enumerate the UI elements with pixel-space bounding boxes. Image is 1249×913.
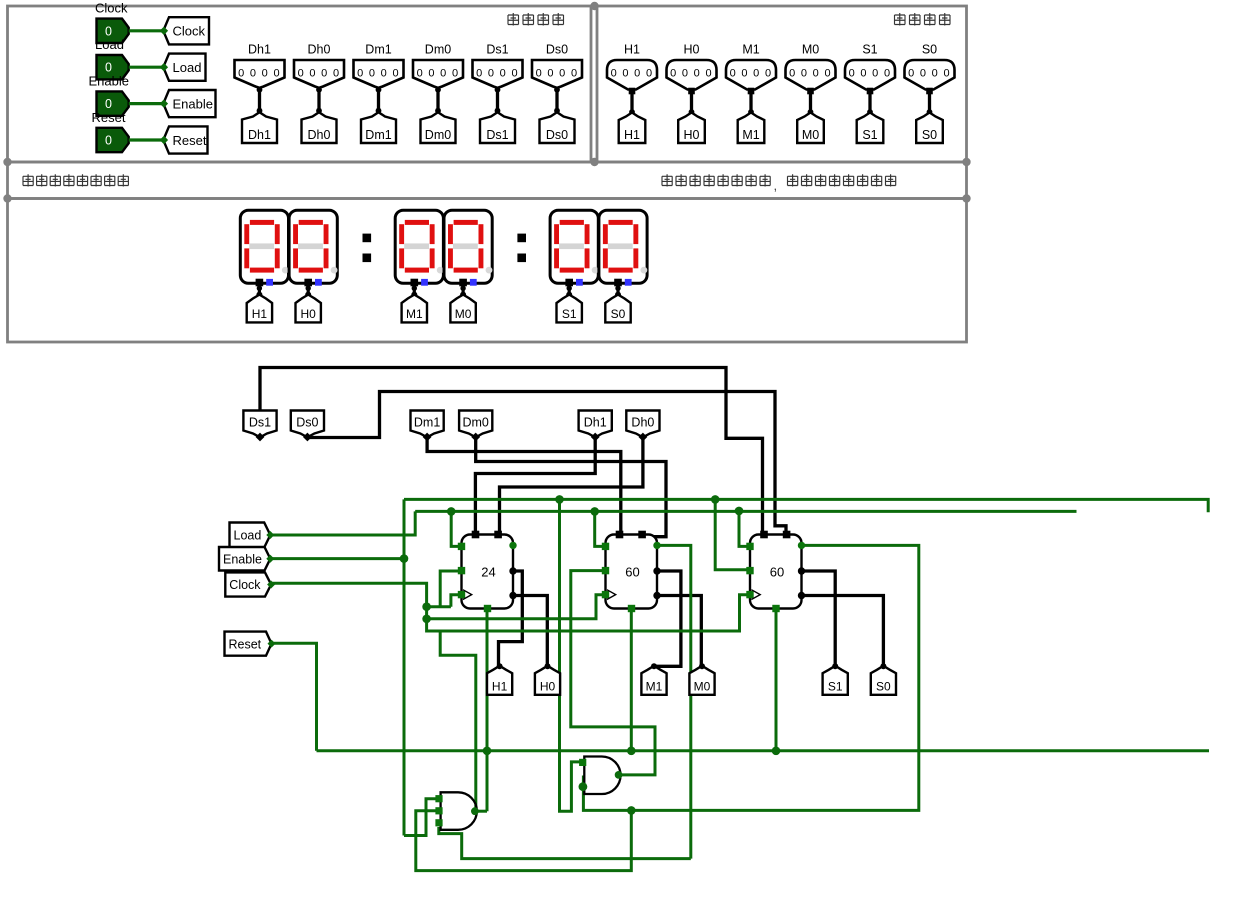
svg-text:Dh0: Dh0	[308, 43, 331, 57]
counter 60 bottom pin	[628, 605, 635, 612]
svg-text:0 0 0 0: 0 0 0 0	[238, 68, 281, 80]
svg-text:Dh1: Dh1	[248, 43, 271, 57]
wire Ds1 pin to tunnel	[496, 88, 499, 112]
seven-segment display H1	[240, 210, 288, 283]
bus wire hours counter Q1 to tunnel H1	[499, 571, 523, 665]
wire reset bus to counter 60s reset pin	[775, 609, 778, 751]
wire end diamond Clock	[160, 27, 168, 35]
svg-text:Dm1: Dm1	[414, 416, 440, 430]
input pin Clock (value 0)	[97, 19, 129, 43]
probe pin square M1	[748, 88, 755, 95]
svg-text:Ds0: Ds0	[296, 416, 318, 430]
wire Reset pin to tunnel	[129, 138, 164, 141]
counter 60 body	[606, 535, 658, 609]
clock stub to counter 24	[427, 605, 451, 608]
wire Load pin to tunnel	[129, 66, 164, 69]
wire display pin to tunnel S1	[568, 286, 571, 295]
bus wire Ds0 to seconds counter load	[307, 392, 786, 534]
counter 24 clock wedge	[463, 590, 472, 600]
wire reset bus to counter 60m reset pin	[630, 609, 633, 751]
wire Enable pin to tunnel	[129, 102, 164, 105]
svg-text:H0: H0	[684, 128, 700, 142]
node load/counter24	[447, 507, 456, 516]
bus wire hours counter Q0 to tunnel H0	[513, 596, 547, 666]
counter 60 output pins	[653, 567, 660, 574]
wire Clock pin to tunnel	[129, 29, 164, 32]
display M0 input pin	[459, 279, 467, 287]
svg-text:Clock: Clock	[173, 24, 206, 39]
svg-text:Dh0: Dh0	[631, 416, 654, 430]
wire counter 60s carry to AND gate G2 input B	[583, 545, 918, 810]
seven-segment display S1	[550, 210, 598, 283]
tunnel Ds1 (south)	[243, 411, 276, 438]
frame: display section border	[8, 199, 967, 343]
wire display pin to tunnel M1	[413, 286, 416, 295]
tunnel Clock (east)	[225, 572, 271, 596]
svg-text:Load: Load	[234, 529, 262, 543]
counter 60 clock wedge	[751, 590, 760, 600]
wire diamond Enable	[266, 555, 274, 563]
wire G1 output to counter 24 reset pin	[475, 810, 487, 813]
tunnel Load	[163, 54, 205, 81]
svg-text:S0: S0	[922, 43, 937, 57]
seven-segment display M1	[395, 210, 443, 283]
counter 24 carry out pin	[509, 542, 516, 549]
wire clock line down to G1 output feed	[440, 631, 476, 811]
svg-text:Ds0: Ds0	[546, 128, 568, 142]
seven-segment display H0	[289, 210, 337, 283]
wire load bus to counter 24 load pin	[451, 511, 460, 546]
display S1 dp pin (blue)	[576, 279, 583, 286]
AND gate G2 input stubs	[579, 759, 586, 766]
input pin Dm1 (4-bit)	[354, 60, 404, 88]
tunnel Dm0 (south)	[459, 411, 492, 438]
wire Dh0 pin to tunnel	[317, 88, 320, 112]
output probe H0 (4-bit)	[667, 60, 717, 90]
wire G2 output to counter 60m enable pin	[571, 571, 655, 775]
wire clock stub to counter 24 enable pin	[440, 571, 460, 607]
label 二十四小时计数器	[23, 174, 33, 186]
tunnel Dm0 (north)	[421, 112, 456, 143]
bus wire seconds counter Q0 to tunnel S0	[802, 596, 884, 666]
tunnel M1 (north)	[402, 295, 427, 323]
svg-text:Dm0: Dm0	[462, 416, 488, 430]
tunnel Enable (east)	[219, 547, 270, 571]
probe pin square H0	[688, 88, 695, 95]
wire Load tunnel to load bus	[270, 511, 415, 535]
input pin Enable (value 0)	[97, 91, 129, 115]
bus wire seconds counter Q1 to tunnel S1	[802, 571, 836, 665]
svg-text:S0: S0	[922, 128, 937, 142]
svg-text:S1: S1	[828, 679, 843, 693]
svg-text:H1: H1	[624, 43, 640, 57]
svg-text:0 0 0 0: 0 0 0 0	[789, 68, 832, 80]
bus wire minutes counter Q0 to tunnel M0	[657, 596, 701, 666]
seven-segment display M0	[444, 210, 492, 283]
enable riser vertical	[403, 499, 406, 835]
svg-text:H1: H1	[492, 679, 508, 693]
tunnel Clock	[163, 17, 209, 44]
svg-text:0 0 0 0: 0 0 0 0	[476, 68, 519, 80]
svg-text:Clock: Clock	[229, 578, 261, 592]
tunnel Ds0 (north)	[540, 112, 575, 143]
svg-text:Load: Load	[95, 37, 124, 52]
wire diamond Reset	[268, 640, 276, 648]
svg-text:M0: M0	[694, 679, 711, 693]
svg-text:S0: S0	[876, 679, 891, 693]
counter 60 top pins (load data)	[760, 531, 768, 539]
AND gate G2 input junction dot	[579, 782, 588, 791]
svg-text:Clock: Clock	[95, 1, 128, 16]
input pin Dh0 (4-bit)	[294, 60, 344, 88]
bus wire minutes counter Q1 to tunnel M1	[655, 571, 681, 666]
label 请勿更改封装外观，否则无法完成测试	[662, 174, 672, 186]
probe pin square S1	[867, 88, 874, 95]
svg-text:Dm1: Dm1	[365, 43, 391, 57]
wire M0 probe to tunnel	[809, 94, 812, 113]
svg-text:Dm0: Dm0	[425, 128, 451, 142]
enable bus horizontal	[404, 499, 1208, 512]
display H0 input pin	[304, 279, 312, 287]
wire H1 probe to tunnel	[630, 94, 633, 113]
node enable riser	[400, 554, 409, 563]
output probe M1 (4-bit)	[726, 60, 776, 90]
svg-text:60: 60	[625, 565, 639, 580]
label 输入引脚	[508, 13, 519, 26]
wire Dm1 pin to tunnel	[377, 88, 380, 112]
node reset/counter60s	[772, 747, 781, 756]
output probe S0 (4-bit)	[905, 60, 955, 90]
svg-text:H0: H0	[684, 43, 700, 57]
tunnel M1 (north)	[641, 666, 666, 695]
tunnel M0 (north)	[450, 295, 475, 323]
frame: top-left section border	[8, 6, 592, 162]
colon 2	[517, 234, 526, 243]
tunnel Dm1 (south)	[411, 411, 444, 438]
input pin Ds1 (4-bit)	[473, 60, 523, 88]
svg-text:Ds1: Ds1	[249, 416, 271, 430]
node reset/counter24	[483, 747, 492, 756]
svg-text:Enable: Enable	[223, 552, 262, 566]
wire display pin to tunnel H0	[307, 286, 310, 295]
tunnel S0 (north)	[605, 295, 630, 323]
AND gate G1 output dot	[471, 807, 479, 815]
counter 60 body	[750, 535, 802, 609]
wire G2 input line to AND gate G1 input B	[416, 810, 632, 870]
svg-text:0: 0	[105, 134, 112, 148]
wire Clock tunnel to clock net	[271, 583, 748, 631]
counter 60 left pins	[602, 543, 609, 550]
bus wire Dm1 to minutes counter load	[427, 435, 621, 533]
counter 60 bottom pin	[772, 605, 779, 612]
wire clock stub to counter 24 clock pin	[451, 595, 460, 607]
display S0 input pin	[614, 279, 622, 287]
svg-text:H1: H1	[252, 307, 268, 321]
counter 60 clock wedge	[607, 590, 616, 600]
AND gate G2	[584, 757, 620, 795]
display M1 dp pin (blue)	[421, 279, 428, 286]
node carry60s/G1	[627, 806, 636, 815]
wire Dm0 pin to tunnel	[436, 88, 439, 112]
tunnel M0 (north)	[797, 113, 824, 144]
bus wire Dh0 to hours counter load	[500, 435, 643, 533]
wire display pin to tunnel H1	[258, 286, 261, 295]
wire display pin to tunnel M0	[462, 286, 465, 295]
tunnel H1 (north)	[619, 113, 646, 144]
svg-text:0 0 0 0: 0 0 0 0	[298, 68, 341, 80]
wire enable to AND gate G1 input A	[404, 799, 436, 836]
tunnel Reset (east)	[225, 632, 272, 656]
wire Enable tunnel to enable bus	[270, 557, 404, 560]
AND gate G2 output dot	[615, 771, 623, 779]
tunnel Load (east)	[230, 523, 271, 548]
counter 60 top pins (load data)	[616, 531, 624, 539]
frame anchor dots	[590, 2, 598, 10]
wire Ds0 pin to tunnel	[555, 88, 558, 112]
tunnel M1 (north)	[738, 113, 765, 144]
tunnel H0 (north)	[296, 295, 321, 323]
tunnel Reset	[163, 126, 207, 153]
probe pin square S0	[926, 88, 933, 95]
svg-text:0 0 0 0: 0 0 0 0	[730, 68, 773, 80]
tunnel S0 (north)	[916, 113, 943, 144]
wire enable bus to counter 60s enable pin	[715, 499, 748, 569]
bus wire Dh1 to hours counter load	[475, 435, 595, 533]
svg-text:Dm0: Dm0	[425, 43, 451, 57]
wire end diamond Enable	[160, 99, 168, 107]
output probe M0 (4-bit)	[786, 60, 836, 90]
svg-text:M1: M1	[742, 128, 759, 142]
reset bus horizontal	[317, 749, 1210, 752]
wire S0 probe to tunnel	[928, 94, 931, 113]
svg-text:,: ,	[774, 178, 778, 193]
tunnel H1 (north)	[247, 295, 272, 323]
svg-text:M0: M0	[802, 128, 819, 142]
svg-text:0 0 0 0: 0 0 0 0	[849, 68, 892, 80]
wire Dh1 pin to tunnel	[258, 88, 261, 112]
tunnel H0 (north)	[678, 113, 705, 144]
counter 24 left pins	[458, 543, 465, 550]
input pin Dm0 (4-bit)	[413, 60, 463, 88]
AND gate G1	[441, 792, 477, 830]
display S1 input pin	[565, 279, 573, 287]
node load/counter60s	[735, 507, 744, 516]
tunnel S1 (north)	[857, 113, 884, 144]
display S0 dp pin (blue)	[625, 279, 632, 286]
wire Reset tunnel to reset bus	[272, 643, 317, 751]
tunnel H1 (north)	[487, 666, 512, 695]
label 输出引脚	[895, 13, 906, 26]
wire S1 probe to tunnel	[868, 94, 871, 113]
node clock/counter60m	[422, 615, 431, 624]
svg-text:Dh0: Dh0	[308, 128, 331, 142]
display H0 dp pin (blue)	[315, 279, 322, 286]
output probe H1 (4-bit)	[607, 60, 657, 90]
tunnel S1 (north)	[823, 666, 848, 695]
display H1 dp pin (blue)	[266, 279, 273, 286]
tunnel H0 (north)	[535, 666, 560, 695]
wire clock branch to counter 60m clock pin	[427, 595, 604, 619]
wire end diamond Load	[160, 63, 168, 71]
bus wire Ds1 to seconds counter load (over the top)	[260, 368, 763, 534]
svg-text:Reset: Reset	[173, 133, 207, 148]
probe pin square M0	[807, 88, 814, 95]
node enable/G2	[555, 495, 564, 504]
svg-text:M1: M1	[406, 307, 423, 321]
svg-text:60: 60	[770, 565, 784, 580]
tunnel M0 (north)	[689, 666, 714, 695]
svg-text:0 0 0 0: 0 0 0 0	[536, 68, 579, 80]
tunnel Dh1 (north)	[242, 112, 277, 143]
svg-text:Dm1: Dm1	[365, 128, 391, 142]
output probe S1 (4-bit)	[845, 60, 895, 90]
svg-text:H0: H0	[301, 307, 317, 321]
svg-text:M1: M1	[742, 43, 759, 57]
counter 24 body	[462, 535, 514, 609]
svg-text:Enable: Enable	[173, 96, 213, 111]
frame: caption band line	[8, 197, 967, 200]
tunnel Dh0 (north)	[302, 112, 337, 143]
wire counter 60m carry to AND gate G1 input C	[657, 545, 691, 858]
counter 60 carry out pin	[798, 542, 805, 549]
wire enable bus down to AND gate G2 input A	[560, 499, 582, 811]
wire diamond Load	[266, 531, 274, 539]
display H1 input pin	[256, 279, 264, 287]
node reset/counter60m	[627, 747, 636, 756]
wire display pin to tunnel S0	[616, 286, 619, 295]
svg-text:M1: M1	[646, 679, 663, 693]
tunnel Ds0 (south)	[291, 411, 324, 438]
node load/counter60m	[590, 507, 599, 516]
probe pin square H1	[629, 88, 636, 95]
svg-text:M0: M0	[455, 307, 472, 321]
input pin Ds0 (4-bit)	[532, 60, 582, 88]
tunnel Dh0 (south)	[626, 411, 659, 438]
svg-text:Ds1: Ds1	[486, 128, 508, 142]
node enable/counter60s	[711, 495, 720, 504]
AND gate G1 input stubs	[435, 795, 442, 802]
seven-segment display S0	[599, 210, 647, 283]
bus wire Dm0 to minutes counter load	[476, 435, 666, 537]
tunnel Enable	[163, 90, 215, 117]
wire load bus to counter 60m load pin	[595, 511, 604, 546]
svg-text:0 0 0 0: 0 0 0 0	[670, 68, 713, 80]
svg-text:Dh1: Dh1	[248, 128, 271, 142]
input pin Dh1 (4-bit)	[235, 60, 285, 88]
counter 24 top pins (load data)	[472, 531, 480, 539]
svg-text:M0: M0	[802, 43, 819, 57]
tunnel Dh1 (south)	[579, 411, 612, 438]
svg-text:H0: H0	[540, 679, 556, 693]
counter 60 carry out pin	[653, 542, 660, 549]
tunnel S0 (north)	[871, 666, 896, 695]
node clock/counter24	[422, 602, 431, 611]
counter 60 left pins	[746, 543, 753, 550]
wire load bus to counter 60s load pin	[739, 511, 749, 546]
svg-text:0 0 0 0: 0 0 0 0	[357, 68, 400, 80]
tunnel Ds1 (north)	[480, 112, 515, 143]
input pin Load (value 0)	[97, 55, 129, 79]
svg-text:24: 24	[481, 565, 495, 580]
svg-text:0 0 0 0: 0 0 0 0	[611, 68, 654, 80]
counter 60 output pins	[798, 567, 805, 574]
svg-text:S1: S1	[862, 128, 877, 142]
wire end diamond Reset	[160, 136, 168, 144]
svg-text:Dh1: Dh1	[584, 416, 607, 430]
wire diamond Clock	[267, 581, 275, 589]
svg-text:S0: S0	[611, 307, 626, 321]
svg-text:Load: Load	[173, 60, 202, 75]
tunnel Dm1 (north)	[361, 112, 396, 143]
svg-text:0 0 0 0: 0 0 0 0	[908, 68, 951, 80]
svg-text:S1: S1	[862, 43, 877, 57]
display M1 input pin	[411, 279, 419, 287]
colon 1	[363, 234, 372, 243]
svg-text:Reset: Reset	[92, 110, 126, 125]
svg-text:0 0 0 0: 0 0 0 0	[417, 68, 460, 80]
load bus horizontal	[415, 510, 1076, 513]
svg-text:Ds0: Ds0	[546, 43, 568, 57]
counter 24 output pins	[509, 567, 516, 574]
svg-text:Reset: Reset	[229, 637, 262, 651]
counter 24 bottom pin	[484, 605, 491, 612]
svg-text:S1: S1	[562, 307, 577, 321]
wire H0 probe to tunnel	[690, 94, 693, 113]
frame: top-right section border	[597, 6, 967, 162]
input pin Reset (value 0)	[97, 128, 129, 152]
tunnel S1 (north)	[557, 295, 582, 323]
wire M1 probe to tunnel	[749, 94, 752, 113]
svg-text:Ds1: Ds1	[486, 43, 508, 57]
svg-text:Enable: Enable	[89, 73, 129, 88]
display M0 dp pin (blue)	[470, 279, 477, 286]
svg-text:H1: H1	[624, 128, 640, 142]
